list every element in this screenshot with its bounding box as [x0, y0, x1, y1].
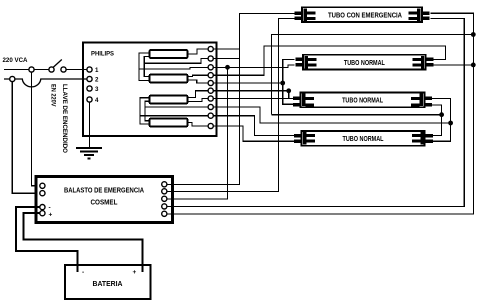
lamp TUBE4 TUBO NORMAL: [294, 131, 433, 146]
node dotC bus2 top: [471, 32, 476, 37]
wire terminal R2 to inner bracket1: [144, 59, 208, 64]
wire phase down left: [32, 72, 41, 186]
wire T6 to dot2: [213, 90, 288, 92]
wire T2 terminal to V1: [213, 58, 239, 60]
pin 4 philips left: [87, 97, 92, 102]
svg-text:LLAVE DE ENCENDIDO: LLAVE DE ENCENDIDO: [61, 84, 68, 153]
wire outer bracket2 to terminal R9: [140, 115, 208, 117]
wire W2 upper tap to terminal R4: [188, 75, 209, 76]
wire W3 lower tap to terminal R7: [188, 99, 209, 102]
node dotA: [439, 112, 444, 117]
svg-text:PHILIPS: PHILIPS: [91, 51, 115, 58]
wire tube1 LL pin down to balasto T2: [173, 18, 295, 191]
svg-text:2: 2: [95, 77, 99, 84]
node junction bottom wire: [10, 76, 15, 81]
svg-text:+: +: [133, 269, 137, 276]
svg-text:-: -: [49, 205, 51, 212]
wire T4 over tube2 to UR pin: [213, 46, 445, 75]
wire T9 to tube4 UL pin: [213, 116, 294, 136]
lamp TUBE1 TUBO CON EMERGENCIA: [295, 7, 430, 22]
wire dot2 down: [288, 91, 290, 99]
pin 1 philips left: [87, 67, 92, 72]
pin 2 philips left: [87, 76, 92, 81]
svg-text:EN 220V: EN 220V: [50, 84, 57, 107]
WIRES philips to tubes: [173, 13, 474, 214]
junction dots: [225, 32, 476, 125]
node dot2: [286, 88, 291, 93]
wire T5 to dot1: [213, 82, 282, 84]
battery BT1 box: [65, 265, 151, 299]
svg-text:1: 1: [95, 67, 99, 74]
wire dot1 to dot2 link: [283, 90, 289, 92]
wire tube1 UL feed from V1: [240, 12, 295, 14]
wire tube3 UR pin down dotB tube4 LR pin: [430, 98, 451, 141]
wire bracket outer group2: [140, 98, 150, 124]
wire T7 to tube3 UL pin: [213, 98, 294, 100]
wire bus1 tube1 LR to balasto: [173, 18, 465, 206]
balasto left terminals: [40, 183, 45, 216]
wire tube2 LR pin to bus2: [432, 64, 473, 66]
wire top cross y34.5: [272, 35, 474, 115]
wire pin4 to ground: [89, 102, 91, 147]
wire plus battery: [24, 213, 143, 272]
svg-text:3: 3: [95, 86, 99, 93]
node junction top wire: [29, 67, 34, 72]
wire T10 to tube4 LL pin: [213, 126, 294, 141]
node dot T3: [225, 65, 230, 70]
svg-text:TUBO NORMAL: TUBO NORMAL: [344, 58, 385, 67]
svg-text:BALASTO DE EMERGENCIA: BALASTO DE EMERGENCIA: [64, 186, 144, 195]
wire L line top: [4, 69, 87, 71]
wire stubs balasto right: [167, 184, 173, 214]
node dotB: [448, 121, 453, 126]
wire T3 to tube2 LL pin: [213, 65, 294, 67]
wire inner bracket2 to terminal R8: [145, 106, 208, 108]
inductor W4 winding: [150, 119, 188, 127]
node dot1: [280, 81, 285, 86]
svg-text:BATERIA: BATERIA: [93, 279, 123, 288]
switch LLAVE blade: [53, 60, 62, 68]
inductor W3 winding: [150, 96, 188, 104]
svg-text:TUBO NORMAL: TUBO NORMAL: [343, 134, 384, 143]
philips right terminals column: [208, 46, 213, 128]
pin 3 philips left: [87, 86, 92, 91]
svg-text:TUBO CON EMERGENCIA: TUBO CON EMERGENCIA: [328, 10, 402, 19]
wire tube3 LR pin down dotA tube4 UR pin: [430, 105, 442, 136]
wire bus2 tube1 UR to balasto: [173, 13, 474, 214]
wire dot1 vertical tube2 UL pin to tube3 LL pin: [283, 59, 295, 104]
balasto right terminals: [162, 182, 167, 217]
wire bracket inner group1: [144, 57, 149, 77]
svg-text:TUBO NORMAL: TUBO NORMAL: [342, 96, 383, 105]
wire W2 lower tap to terminal R5: [188, 80, 209, 83]
wire bracket inner group2: [145, 101, 150, 121]
svg-text:-: -: [82, 269, 84, 276]
wire neutral down left: [12, 82, 40, 194]
wire W4 tap to terminal R10: [188, 123, 209, 127]
inductor W2 winding: [150, 75, 188, 83]
switch contact circles: [49, 67, 66, 72]
node dotD bus2 tube2: [471, 63, 476, 68]
lamp TUBE2 TUBO NORMAL: [295, 55, 433, 70]
wire terminal R3 to outer bracket1: [139, 67, 208, 69]
wire y114.7 to dotA: [272, 114, 442, 116]
ballast U1 PHILIPS box: [83, 43, 217, 137]
svg-text:COSMEL: COSMEL: [91, 198, 119, 207]
wire minus battery: [16, 207, 78, 272]
wire W1 upper tap to terminal R1: [188, 49, 209, 54]
wire T8 to dotB: [213, 107, 450, 123]
wire V1 vertical tube1 UL to balasto: [173, 13, 294, 184]
wire W3 upper tap to terminal R6: [188, 91, 209, 98]
ground earth symbol: [76, 148, 102, 159]
inductor W1 winding: [150, 50, 188, 58]
lamp TUBE3 TUBO NORMAL: [293, 93, 432, 108]
svg-text:+: +: [49, 212, 53, 219]
ballast U2 COSMEL box: [36, 177, 173, 223]
wire T1 terminal to V1: [213, 48, 239, 50]
svg-text:220 VCA: 220 VCA: [3, 57, 28, 64]
wire bracket outer group1: [139, 53, 150, 81]
battery terminal wires inside: [77, 265, 79, 272]
wire V2 dot to balasto: [173, 67, 228, 199]
svg-text:4: 4: [95, 97, 99, 104]
wire L line bottom with hop: [4, 79, 87, 87]
